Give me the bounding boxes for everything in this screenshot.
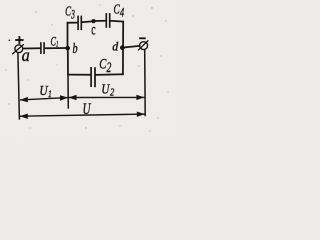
node d junction dot [120, 45, 125, 50]
svg-text:2: 2 [110, 87, 114, 99]
svg-text:3: 3 [70, 9, 75, 22]
svg-text:C: C [99, 55, 106, 72]
wire b down [67, 48, 69, 75]
svg-text:C: C [114, 3, 120, 17]
svg-text:c: c [91, 20, 95, 38]
wire c to C4 [94, 20, 107, 22]
capacitor C3 [78, 16, 81, 31]
capacitor C2 [91, 67, 95, 87]
plus polarity mark [15, 36, 23, 44]
capacitor C4 [106, 13, 109, 28]
minus polarity mark [139, 37, 146, 39]
wire C2 to right riser [95, 73, 123, 76]
wire b up [67, 22, 69, 49]
svg-text:C: C [51, 36, 57, 49]
svg-text:U: U [101, 82, 110, 97]
node c junction dot [91, 19, 95, 23]
scan speckle noise [5, 4, 168, 131]
wire right vertical through node d [122, 22, 124, 76]
wire C3 to node c [82, 21, 94, 22]
terminal a symbol [12, 44, 24, 54]
wire C1 to node b [44, 47, 67, 49]
dimension U1 [20, 95, 68, 102]
node b junction dot [65, 46, 70, 51]
extension line from terminal a [18, 52, 20, 119]
capacitor C1 [41, 42, 44, 54]
svg-text:2: 2 [107, 59, 112, 75]
svg-text:4: 4 [120, 6, 125, 20]
wire a to C1 [23, 47, 41, 49]
extension line from minus terminal [144, 50, 147, 117]
wire bottom left segment [67, 74, 91, 76]
extension line from node b [67, 75, 69, 109]
svg-text:U: U [83, 100, 92, 117]
svg-text:1: 1 [48, 88, 52, 99]
terminal minus symbol [138, 40, 148, 50]
wire C4 to corner [110, 20, 124, 23]
svg-text:C: C [65, 5, 71, 19]
dimension U [20, 112, 145, 119]
wire top left segment [67, 22, 79, 24]
wire d to minus terminal [124, 46, 140, 48]
svg-text:b: b [73, 40, 78, 56]
dimension U2 [68, 95, 144, 101]
svg-text:d: d [112, 39, 119, 53]
